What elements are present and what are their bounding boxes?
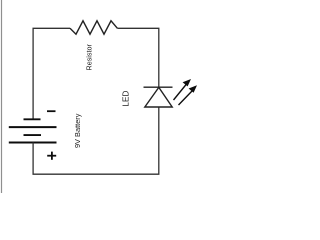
resistor R1 zigzag bbox=[70, 21, 117, 34]
svg-text:LED: LED bbox=[122, 91, 131, 107]
wire left lower, bottom, right lower bbox=[33, 107, 159, 174]
svg-text:9V Battery: 9V Battery bbox=[73, 113, 82, 148]
wire top-right segment bbox=[117, 28, 158, 87]
wire top-left segment bbox=[33, 28, 70, 119]
LED triangle (anode, pointing up) bbox=[145, 87, 172, 107]
battery plate short (middle) bbox=[24, 134, 42, 136]
LED light arrow lower bbox=[179, 85, 198, 105]
battery B1 plate short (negative, top) bbox=[24, 118, 41, 120]
battery plate long (positive, bottom) bbox=[9, 142, 57, 144]
battery plate long bbox=[9, 126, 57, 128]
left image-edge border line bbox=[1, 0, 3, 193]
minus sign bbox=[47, 110, 56, 112]
svg-text:Resistor: Resistor bbox=[84, 44, 93, 71]
LED light arrow upper bbox=[174, 79, 192, 100]
LED D1 cathode bar bbox=[144, 86, 173, 88]
plus sign bbox=[47, 152, 56, 160]
